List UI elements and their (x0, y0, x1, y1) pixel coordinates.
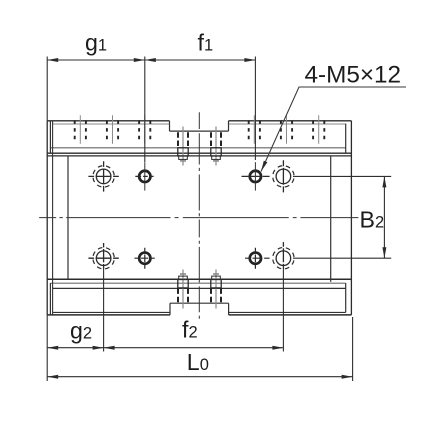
dimension line f1 (145, 58, 256, 62)
extension line left (g1 g2 L0) (46, 57, 48, 382)
mounting thread hole bottom-left (134, 248, 154, 269)
body bottom edge (47, 278, 351, 280)
part right outer edge (350, 121, 352, 315)
dimension line f2 (104, 346, 284, 350)
top rail notch left step (169, 121, 171, 131)
extension line B2 top (293, 175, 391, 177)
bottom rail bottom outer edge right segment (229, 314, 352, 316)
body inner right vertical (330, 156, 332, 282)
mounting thread hole bottom-right (245, 248, 270, 269)
dimension line g2 (47, 346, 103, 350)
body upper line (47, 152, 351, 154)
rail hole 5 (281, 115, 292, 144)
horizontal part centerline (39, 217, 358, 219)
top rail inner top line left segment (53, 123, 170, 125)
rail hole 4 (249, 115, 260, 144)
left end cap line top rail (49, 121, 51, 153)
bottom rail inner bottom line right segment (229, 311, 346, 313)
bottom rail notch left step (169, 303, 171, 315)
vertical part centerline (198, 112, 200, 319)
top rail threaded holes (6x) (75, 115, 325, 144)
mounting thread hole top-left (4-M5x12) (135, 162, 153, 190)
counterbore hole bottom-right (dashed hidden circle) (273, 242, 294, 269)
bottom rail top edge (53, 287, 346, 289)
bottom rail notch right step (228, 303, 230, 315)
right end cap line top rail (345, 124, 347, 154)
bottom notch screw hole B (211, 270, 221, 309)
svg-text:4-M5×12: 4-M5×12 (305, 62, 402, 89)
dimension line B2 (382, 176, 386, 258)
top notch screw hole A (178, 127, 188, 166)
dimension line L0 (47, 375, 352, 379)
extension line B2 bottom (293, 257, 391, 259)
bottom rail inner bottom line left segment (53, 311, 170, 313)
top rail top outer edge right segment (229, 120, 352, 122)
extension line f1 left at table hole (144, 57, 146, 163)
body lower line (51, 282, 346, 284)
extension line f1 right at table hole (254, 57, 256, 161)
body inner left vertical (67, 156, 69, 279)
bottom notch screw hole A (178, 270, 188, 309)
extension line g2 right at body hole (103, 268, 105, 352)
rail hole 1 center line (75, 115, 86, 144)
extension line f2 right at body hole (282, 268, 284, 352)
mounting thread hole top-right (4-M5x12) (242, 162, 270, 190)
top notch screw hole B (211, 127, 221, 166)
top rail inner top line right segment (229, 123, 346, 125)
bottom rail bottom outer edge left segment (47, 314, 170, 316)
right end cap line bottom rail (345, 283, 347, 312)
top rail top outer edge left segment (47, 120, 169, 122)
counterbore hole top-left (dashed hidden circle) (88, 161, 118, 191)
left end cap line bottom rail (49, 283, 51, 315)
rail hole 6 (313, 115, 324, 144)
rail hole 2 (107, 115, 118, 144)
extension line L0 right (352, 317, 354, 381)
part left outer edge (46, 121, 48, 315)
left inner edge full (52, 121, 54, 315)
top rail notch floor (170, 130, 229, 132)
counterbore hole top-right (dashed hidden circle) (273, 160, 294, 192)
rail hole 3 (139, 115, 150, 144)
counterbore hole bottom-left (dashed hidden circle) (88, 243, 118, 269)
callout 4-M5x12 leader (261, 87, 406, 172)
dimension line g1 (47, 58, 145, 62)
top rail notch right step (228, 121, 230, 131)
bottom rail notch floor (170, 302, 229, 304)
top rail bottom edge (50, 147, 345, 149)
body top edge (47, 155, 351, 157)
